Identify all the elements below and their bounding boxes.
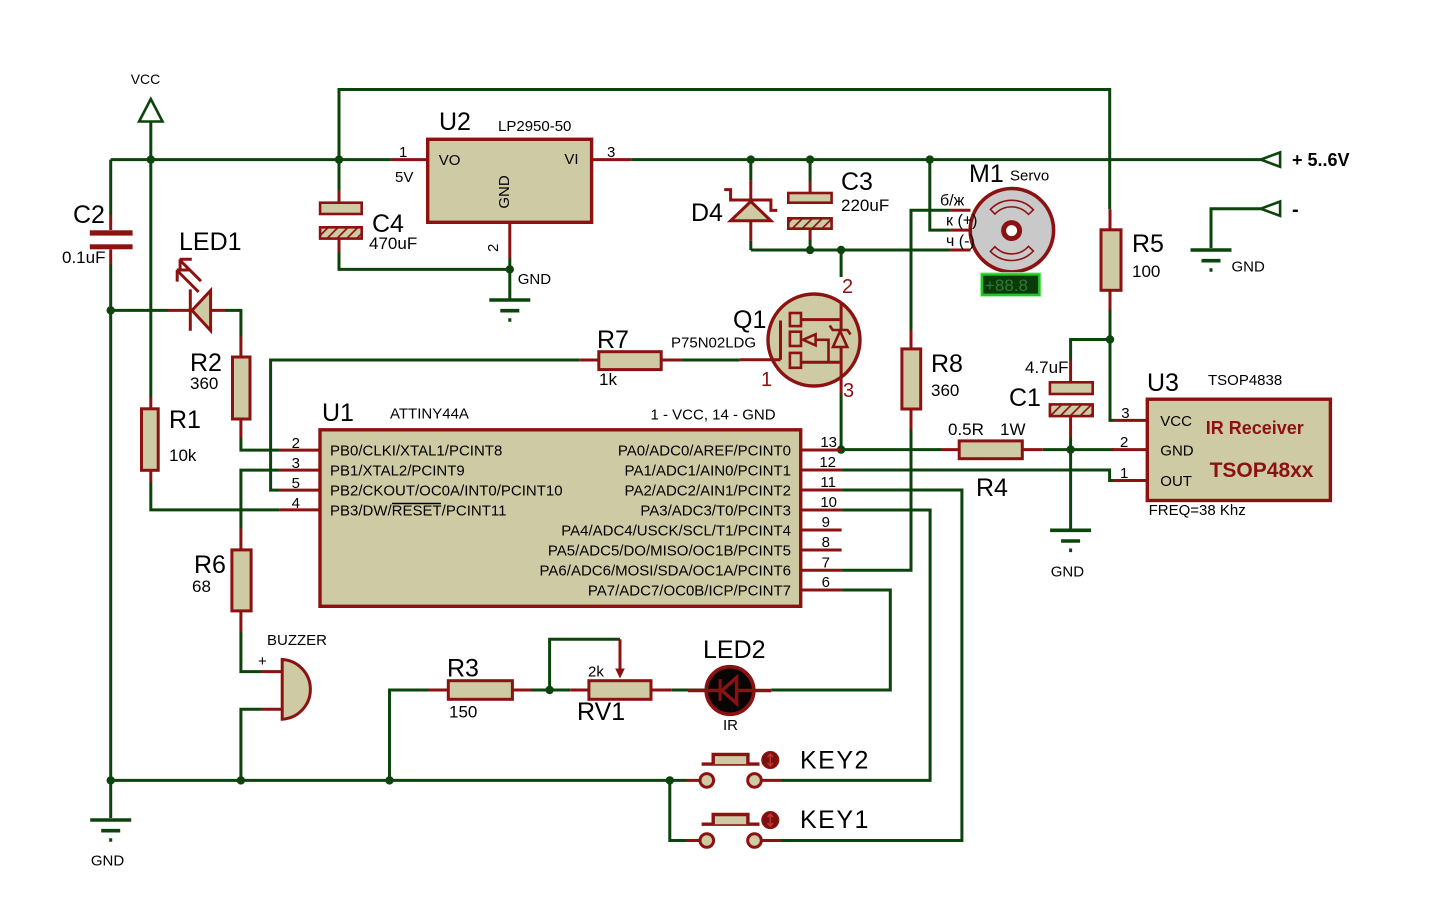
- svg-text:3: 3: [607, 144, 615, 161]
- svg-text:3: 3: [292, 455, 300, 472]
- svg-text:R6: R6: [194, 551, 226, 579]
- svg-text:R5: R5: [1132, 230, 1164, 258]
- switch KEY1: [687, 806, 870, 847]
- svg-text:KEY1: KEY1: [800, 806, 870, 834]
- svg-text:3: 3: [843, 380, 854, 402]
- svg-text:б/ж: б/ж: [940, 193, 965, 210]
- svg-text:U2: U2: [439, 108, 471, 136]
- resistor R3: [429, 655, 532, 722]
- svg-text:1 - VCC, 14 - GND: 1 - VCC, 14 - GND: [651, 407, 776, 424]
- switch KEY2: [687, 747, 870, 788]
- junction R5 C1 node: [1106, 335, 1114, 343]
- wire servo signal to R8: [911, 210, 950, 330]
- transistor Q1: [671, 276, 860, 402]
- resistor R2: [190, 337, 250, 439]
- wire D4 bottom: [749, 241, 752, 250]
- svg-text:Q1: Q1: [733, 306, 766, 334]
- wire minus terminal to GND: [1211, 209, 1261, 248]
- wire C3 top: [809, 160, 812, 181]
- power terminal + 5..6V: [1261, 150, 1350, 170]
- svg-text:GND: GND: [518, 271, 552, 288]
- svg-text:U3: U3: [1147, 369, 1179, 397]
- wire pin 13 to R4: [841, 448, 941, 451]
- svg-text:VCC: VCC: [131, 71, 161, 87]
- svg-text:220uF: 220uF: [841, 196, 889, 215]
- svg-text:TSOP4838: TSOP4838: [1208, 372, 1282, 389]
- svg-text:R7: R7: [597, 326, 629, 354]
- svg-text:R8: R8: [931, 350, 963, 378]
- zener diode D4: [691, 180, 777, 241]
- motor M1 servo: [940, 160, 1054, 272]
- wire R4 right to node: [1043, 448, 1071, 451]
- svg-text:GND: GND: [1232, 259, 1266, 276]
- svg-text:11: 11: [820, 474, 836, 491]
- junction RV1 wiper node: [545, 686, 553, 694]
- svg-text:4: 4: [292, 495, 300, 512]
- wire pin 3 to R6: [241, 470, 280, 528]
- svg-text:VCC: VCC: [1160, 413, 1192, 430]
- svg-text:10k: 10k: [169, 446, 197, 465]
- svg-text:D4: D4: [691, 199, 723, 227]
- junction U2 GND node: [506, 265, 514, 273]
- wire R1 top to VCC: [149, 160, 152, 397]
- capacitor C1: [1009, 358, 1093, 437]
- svg-text:+: +: [258, 653, 267, 670]
- svg-text:5V: 5V: [395, 169, 413, 186]
- wire C4 bottom to U2 GND: [339, 252, 510, 269]
- svg-text:150: 150: [449, 703, 477, 722]
- wire servo plus: [930, 160, 951, 231]
- svg-text:1: 1: [399, 144, 407, 161]
- junction buzzer ground node: [237, 776, 245, 784]
- junction KEY1 ground node: [666, 776, 674, 784]
- wire R8 bottom to pin 7: [842, 430, 911, 571]
- svg-text:OUT: OUT: [1160, 473, 1192, 490]
- wire RV1 to LED2: [672, 689, 705, 692]
- svg-text:470uF: 470uF: [369, 234, 417, 253]
- svg-text:PA1/ADC1/AIN0/PCINT1: PA1/ADC1/AIN0/PCINT1: [625, 463, 791, 480]
- svg-text:1: 1: [1120, 465, 1128, 482]
- wire U2 pin2 to GND: [508, 258, 511, 269]
- wire Q1 drain up: [840, 250, 843, 277]
- wire KEY2 to pin 10: [782, 510, 931, 780]
- svg-text:R4: R4: [976, 474, 1008, 502]
- svg-text:Servo: Servo: [1010, 168, 1049, 185]
- ground symbol bottom left: [90, 820, 131, 870]
- svg-text:R1: R1: [169, 406, 201, 434]
- svg-text:PB0/CLKI/XTAL1/PCINT8: PB0/CLKI/XTAL1/PCINT8: [330, 443, 502, 460]
- wire KEY1 to pin 11: [782, 490, 962, 841]
- wire buzzer minus to ground rail: [241, 709, 262, 780]
- svg-text:R2: R2: [190, 349, 222, 377]
- wire R3 to RV1: [531, 689, 570, 692]
- svg-text:2: 2: [1120, 434, 1128, 451]
- svg-text:GND: GND: [91, 853, 125, 870]
- led LED2: [688, 636, 771, 734]
- wire Q1 source down: [840, 394, 843, 450]
- svg-text:360: 360: [190, 374, 218, 393]
- svg-text:4.7uF: 4.7uF: [1025, 358, 1068, 377]
- svg-text:PA3/ADC3/T0/PCINT3: PA3/ADC3/T0/PCINT3: [640, 503, 791, 520]
- svg-text:2k: 2k: [588, 664, 604, 681]
- svg-text:к (+): к (+): [946, 213, 977, 230]
- svg-text:LP2950-50: LP2950-50: [498, 118, 571, 135]
- svg-text:IR Receiver: IR Receiver: [1206, 418, 1304, 438]
- junction R3 ground node: [385, 776, 393, 784]
- wire VCC rail left (5V): [111, 158, 391, 161]
- wire node to C1 top: [1071, 340, 1110, 361]
- svg-text:VI: VI: [564, 151, 578, 168]
- display +88.8: [981, 273, 1041, 296]
- power terminal minus: [1261, 199, 1299, 221]
- resistor R7: [579, 326, 681, 389]
- IR receiver U3: [1112, 369, 1330, 519]
- svg-text:9: 9: [822, 514, 830, 531]
- resistor R6: [192, 529, 251, 633]
- svg-text:6: 6: [822, 574, 830, 591]
- wire C3 bottom: [809, 240, 812, 250]
- wire R1 bottom to pin 4: [151, 482, 280, 510]
- svg-text:10: 10: [820, 494, 837, 511]
- buzzer: [258, 632, 327, 719]
- svg-text:PA2/ADC2/AIN1/PCINT2: PA2/ADC2/AIN1/PCINT2: [625, 483, 791, 500]
- svg-text:100: 100: [1132, 262, 1160, 281]
- junction ground rail left node: [107, 776, 115, 784]
- svg-text:PA6/ADC6/MOSI/SDA/OC1A/PCINT6: PA6/ADC6/MOSI/SDA/OC1A/PCINT6: [540, 563, 791, 580]
- svg-text:PB3/DW/RESET/PCINT11: PB3/DW/RESET/PCINT11: [330, 503, 506, 520]
- wire C1 bottom: [1069, 437, 1072, 450]
- capacitor C4: [320, 190, 417, 253]
- svg-text:LED1: LED1: [179, 228, 242, 256]
- wire LED1 to R2: [225, 310, 241, 336]
- junction C3 bottom node: [806, 246, 814, 254]
- svg-text:RV1: RV1: [577, 698, 625, 726]
- wire R3 left to ground rail: [390, 690, 429, 780]
- wire C4 top: [338, 160, 341, 190]
- svg-text:KEY2: KEY2: [800, 747, 870, 775]
- wire node to U3 GND: [1071, 448, 1114, 451]
- svg-text:BUZZER: BUZZER: [267, 632, 327, 649]
- microcontroller U1: [280, 399, 842, 606]
- junction C3 node: [806, 155, 814, 163]
- svg-text:GND: GND: [496, 175, 513, 209]
- wire KEY1 left to ground rail: [670, 780, 687, 840]
- svg-text:FREQ=38 Khz: FREQ=38 Khz: [1149, 502, 1246, 519]
- ground symbol under minus terminal: [1191, 250, 1266, 276]
- svg-text:PB1/XTAL2/PCINT9: PB1/XTAL2/PCINT9: [330, 463, 465, 480]
- svg-text:C1: C1: [1009, 384, 1041, 412]
- wire R7 right to Q1 gate: [681, 359, 739, 362]
- svg-text:-: -: [1292, 199, 1299, 221]
- wire VCC arrow stem: [149, 122, 152, 160]
- wire pin 12 to U3 OUT: [842, 470, 1114, 481]
- svg-text:C3: C3: [841, 168, 873, 196]
- wire 5V link top: [339, 90, 1110, 210]
- wire R6 bottom to buzzer plus: [241, 632, 262, 672]
- svg-text:IR: IR: [723, 717, 738, 734]
- ground symbol under U2: [489, 269, 551, 320]
- resistor R4: [942, 420, 1043, 502]
- svg-text:1: 1: [761, 369, 772, 391]
- wire RV1 wiper loop: [550, 639, 620, 690]
- resistor R1: [142, 397, 201, 482]
- capacitor C3: [788, 168, 889, 240]
- junction pin 13 node: [837, 445, 845, 453]
- wire ground rail bottom: [111, 779, 687, 782]
- junction R4 C1 U3 node: [1066, 445, 1074, 453]
- wire LED1 left node: [111, 309, 168, 312]
- svg-text:+88.8: +88.8: [985, 276, 1028, 295]
- svg-text:2: 2: [842, 276, 853, 298]
- wire R2 bottom to pin 2: [241, 438, 280, 450]
- wire D4 top: [749, 160, 752, 181]
- potentiometer RV1: [570, 639, 671, 726]
- svg-text:C2: C2: [73, 201, 105, 229]
- svg-text:0.1uF: 0.1uF: [62, 248, 105, 267]
- svg-text:VO: VO: [439, 152, 461, 169]
- svg-text:7: 7: [822, 554, 830, 571]
- junction Q1 drain node: [837, 246, 845, 254]
- svg-text:ATTINY44A: ATTINY44A: [390, 406, 469, 423]
- svg-text:1W: 1W: [1000, 420, 1026, 439]
- svg-text:GND: GND: [1051, 564, 1085, 581]
- wire LED2 to pin 6: [771, 590, 890, 690]
- resistor R8: [902, 330, 963, 430]
- svg-text:ч (-): ч (-): [946, 233, 975, 250]
- ground symbol under C1: [1050, 530, 1091, 580]
- resistor R5: [1101, 209, 1164, 310]
- junction D4 node: [747, 155, 755, 163]
- svg-text:PA7/ADC7/OC0B/ICP/PCINT7: PA7/ADC7/OC0B/ICP/PCINT7: [588, 583, 791, 600]
- svg-text:PA0/ADC0/AREF/PCINT0: PA0/ADC0/AREF/PCINT0: [618, 443, 791, 460]
- wire R7 left to pin 5: [271, 360, 580, 490]
- svg-text:3: 3: [1121, 405, 1129, 422]
- wire node to U3 VCC: [1110, 340, 1114, 421]
- svg-text:PA5/ADC5/DO/MISO/OC1B/PCINT5: PA5/ADC5/DO/MISO/OC1B/PCINT5: [548, 543, 791, 560]
- svg-text:U1: U1: [322, 399, 354, 427]
- wire main 6V rail: [631, 158, 1260, 161]
- svg-text:5: 5: [292, 475, 300, 492]
- svg-text:2: 2: [292, 435, 300, 452]
- svg-text:0.5R: 0.5R: [948, 420, 984, 439]
- junction servo plus node: [926, 155, 934, 163]
- svg-text:1k: 1k: [599, 370, 617, 389]
- wire node to GND symbol: [1069, 450, 1072, 529]
- svg-text:+ 5..6V: + 5..6V: [1292, 150, 1350, 170]
- led LED1: [168, 228, 242, 331]
- capacitor C2: [62, 201, 133, 267]
- svg-text:TSOP48xx: TSOP48xx: [1210, 459, 1314, 482]
- svg-text:12: 12: [819, 454, 836, 471]
- svg-text:M1: M1: [969, 160, 1004, 188]
- svg-text:P75N02LDG: P75N02LDG: [671, 335, 756, 352]
- wire C2 top: [109, 160, 112, 215]
- svg-text:68: 68: [192, 577, 211, 596]
- svg-text:GND: GND: [1160, 443, 1194, 460]
- junction VCC arrow node: [147, 155, 155, 163]
- wire negative line D4 C3 Q1 servo: [751, 249, 951, 252]
- svg-text:R3: R3: [447, 655, 479, 683]
- voltage regulator U2: [391, 108, 632, 258]
- svg-text:360: 360: [931, 381, 959, 400]
- svg-text:PA4/ADC4/USCK/SCL/T1/PCINT4: PA4/ADC4/USCK/SCL/T1/PCINT4: [561, 523, 791, 540]
- junction C2 LED1 node: [107, 306, 115, 314]
- junction C4 node: [335, 155, 343, 163]
- svg-text:2: 2: [485, 244, 502, 252]
- wire R5 bottom node: [1109, 310, 1112, 340]
- svg-text:8: 8: [822, 534, 830, 551]
- power VCC: [131, 71, 163, 122]
- svg-text:PB2/CKOUT/OC0A/INT0/PCINT10: PB2/CKOUT/OC0A/INT0/PCINT10: [330, 483, 563, 500]
- wire C2 bottom to ground rail: [109, 264, 112, 818]
- svg-text:LED2: LED2: [703, 636, 766, 664]
- svg-text:13: 13: [820, 434, 837, 451]
